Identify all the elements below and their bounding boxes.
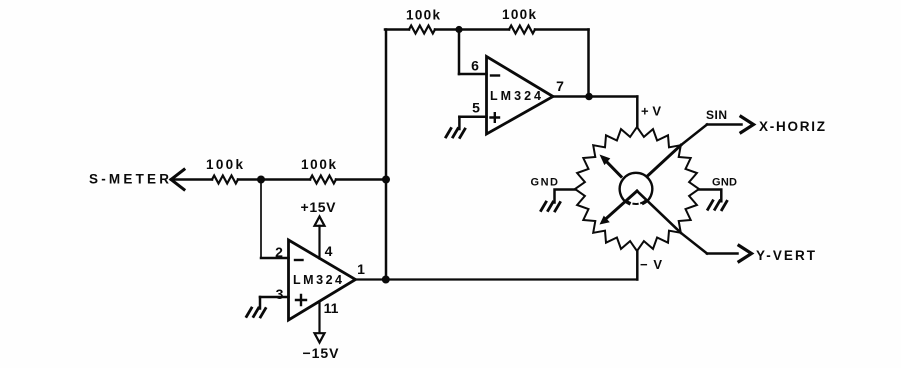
wire: right feedback vertical down to U1 output bbox=[587, 30, 590, 97]
minus sign U1 inverting input bbox=[491, 74, 499, 76]
resistor 100k (S-meter) bbox=[212, 176, 238, 184]
wiper hub circle bbox=[620, 173, 653, 204]
ground (U2 pin 3) bbox=[247, 308, 266, 317]
arrowhead: +15V supply (open, up) bbox=[315, 217, 325, 226]
svg-text:7: 7 bbox=[556, 78, 564, 94]
wiper arm arrow (lower left) bbox=[605, 191, 638, 220]
wire: U1 output to +V corner bbox=[553, 95, 637, 98]
svg-text:+15V: +15V bbox=[301, 199, 337, 215]
svg-text:−15V: −15V bbox=[303, 345, 340, 361]
wire: main vertical bus (feedback / summing node) bbox=[385, 30, 388, 280]
wire: SIN tap diagonal bbox=[681, 125, 707, 146]
svg-text:−V: −V bbox=[640, 257, 662, 272]
svg-text:LM324: LM324 bbox=[490, 89, 541, 103]
ground (U1 pin 5) bbox=[446, 129, 465, 138]
wire: U1 pin 5 horizontal bbox=[459, 115, 486, 118]
svg-text:3: 3 bbox=[276, 286, 284, 302]
plus sign U2 non-inverting input bbox=[296, 295, 306, 305]
dashed rotation arc bbox=[626, 201, 645, 204]
wire: +15V to U2 pin 4 bbox=[318, 226, 320, 259]
wire: U2 pin 2 horizontal bbox=[261, 257, 289, 260]
wire: top feedback run, left segment bbox=[385, 28, 409, 31]
wire: U1 pin 5 drop to ground bbox=[458, 117, 461, 129]
arrow: X-HORIZ output (open, pointing right) bbox=[741, 117, 754, 133]
arrowhead: -15V supply (open, down) bbox=[315, 333, 325, 342]
node: U2 output junction dot bbox=[382, 276, 390, 284]
plus sign U1 non-inverting input bbox=[491, 113, 500, 122]
wire: vertical from summing node down to U2 pin 2 bbox=[260, 180, 262, 259]
wire: U2 pin 11 to -15V bbox=[318, 302, 320, 333]
arrow: Y-VERT output (open, pointing right) bbox=[739, 246, 752, 262]
wiper contact line (upper right to SIN tap) bbox=[648, 145, 681, 175]
wire: -V rise to ring bottom bbox=[636, 251, 639, 280]
wire: U1 pin 6 vertical from junction bbox=[458, 30, 461, 75]
resistor 100k (input to bus) bbox=[310, 176, 336, 184]
wire: U2 pin 3 horizontal bbox=[260, 296, 289, 299]
svg-text:100k: 100k bbox=[406, 8, 440, 23]
wire: U1 pin 6 horizontal bbox=[459, 73, 487, 76]
svg-text:+V: +V bbox=[641, 104, 661, 119]
op-amp U2 LM324 (bottom) bbox=[289, 240, 356, 320]
wire: Y horizontal run bbox=[707, 252, 738, 255]
wire: between mid resistors bbox=[238, 178, 310, 181]
svg-text:SIN: SIN bbox=[706, 108, 727, 122]
svg-text:100k: 100k bbox=[502, 7, 536, 22]
node: bus junction dot bbox=[382, 176, 390, 184]
svg-text:X-HORIZ: X-HORIZ bbox=[759, 119, 825, 134]
op-amp U1 LM324 (top) bbox=[487, 57, 554, 135]
wire: top run between resistors bbox=[435, 28, 509, 31]
svg-text:2: 2 bbox=[275, 244, 283, 260]
node: U1 output junction dot bbox=[585, 93, 593, 101]
wire: U2 pin 3 drop to ground bbox=[259, 297, 262, 309]
wire: +V drop to ring top bbox=[636, 97, 639, 128]
minus sign U2 inverting input bbox=[295, 259, 303, 261]
svg-text:GND: GND bbox=[712, 177, 737, 189]
wire: S-METER line left segment bbox=[171, 178, 212, 181]
svg-text:S-METER: S-METER bbox=[89, 172, 169, 187]
arrow: S-METER output (open, pointing left) bbox=[171, 170, 184, 190]
wire: SIN horizontal run bbox=[707, 123, 742, 126]
wire: ring left tap to ground bbox=[555, 190, 576, 203]
ground (ring right) bbox=[708, 201, 727, 210]
wiper arm arrow (upper left) bbox=[604, 159, 622, 177]
svg-text:100k: 100k bbox=[206, 157, 243, 172]
node: feedback junction dot bbox=[455, 26, 462, 33]
wire: mid run right segment bbox=[336, 178, 386, 181]
svg-text:GND: GND bbox=[531, 177, 559, 189]
potentiometer ring (sin/cos pot, toothed resistive ring) bbox=[575, 127, 699, 251]
wire: top run right segment bbox=[535, 28, 589, 31]
svg-text:100k: 100k bbox=[301, 157, 336, 172]
svg-text:11: 11 bbox=[324, 300, 339, 316]
node: summing junction dot (to U2 pin 2) bbox=[257, 176, 265, 184]
svg-text:6: 6 bbox=[471, 58, 479, 74]
wire: Y tap diagonal bbox=[681, 233, 707, 254]
wire: ring right tap to ground bbox=[699, 190, 721, 202]
svg-text:Y-VERT: Y-VERT bbox=[756, 248, 816, 263]
svg-text:5: 5 bbox=[472, 100, 480, 116]
svg-text:LM324: LM324 bbox=[293, 273, 342, 287]
resistor 100k (top right feedback) bbox=[509, 26, 535, 34]
wiper contact line (lower right to Y tap) bbox=[637, 191, 681, 233]
resistor 100k (top left feedback) bbox=[409, 26, 435, 34]
ground (ring left) bbox=[541, 202, 560, 211]
svg-text:1: 1 bbox=[357, 261, 365, 277]
wire: U2 output bus to -V corner bbox=[356, 278, 638, 280]
svg-text:4: 4 bbox=[325, 243, 333, 259]
